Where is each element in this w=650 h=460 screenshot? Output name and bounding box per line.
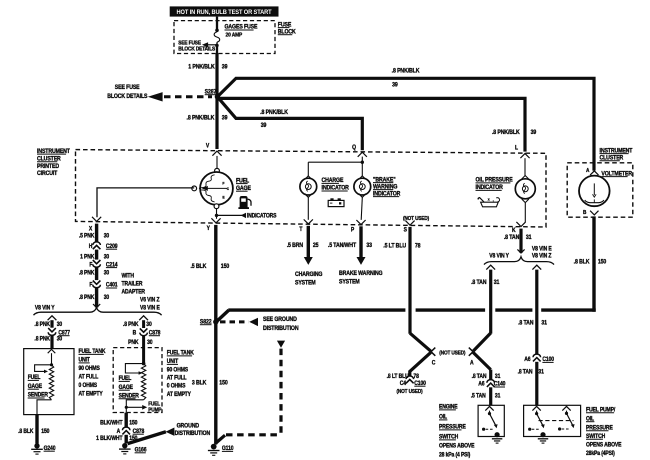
svg-text:S: S [404,227,408,233]
svg-text:A: A [586,168,590,174]
svg-text:ADAPTER: ADAPTER [122,289,146,295]
svg-text:150: 150 [221,264,229,270]
svg-text:.5 TAN: .5 TAN [471,393,486,399]
svg-text:A: A [117,429,121,435]
svg-text:SEE GROUND: SEE GROUND [263,317,297,323]
svg-text:30: 30 [147,339,152,345]
svg-text:.5 PNK: .5 PNK [79,233,95,239]
svg-text:90 OHMS: 90 OHMS [167,367,189,373]
svg-text:V8 VIN Y: V8 VIN Y [35,305,55,311]
svg-text:30: 30 [104,254,109,260]
svg-text:.5 TAN/WHT: .5 TAN/WHT [328,243,357,249]
svg-text:.8 PNK/BLK: .8 PNK/BLK [492,130,521,136]
svg-text:AT EMPTY: AT EMPTY [79,391,103,397]
svg-text:SYSTEM: SYSTEM [295,280,316,286]
svg-text:BLK/WHT: BLK/WHT [100,420,123,426]
svg-text:20 AMP: 20 AMP [226,32,243,38]
svg-text:39: 39 [531,130,537,136]
svg-text:K: K [512,227,516,233]
svg-text:A6: A6 [478,381,484,387]
svg-text:AT EMPTY: AT EMPTY [167,392,191,398]
svg-text:.5 BRN: .5 BRN [287,243,303,249]
svg-text:OPENS ABOVE: OPENS ABOVE [439,443,475,449]
svg-text:(NOT USED): (NOT USED) [439,350,465,356]
svg-text:V6 VIN Z: V6 VIN Z [140,297,160,303]
svg-text:31: 31 [538,369,543,375]
svg-text:,: , [493,198,494,202]
svg-text:28kPa (4PSI): 28kPa (4PSI) [586,451,615,457]
svg-text:.8 LT BLU: .8 LT BLU [387,374,409,380]
svg-text:BLOCK DETAILS: BLOCK DETAILS [107,94,147,100]
svg-text:B: B [133,330,137,336]
svg-text:C: C [432,360,436,366]
svg-text:33: 33 [366,243,372,249]
svg-text:PNK: PNK [128,339,138,345]
svg-text:CIRCUIT: CIRCUIT [37,171,58,177]
svg-text:TRAILER: TRAILER [122,281,143,287]
svg-text:.8 PNK: .8 PNK [79,295,95,301]
svg-text:OPENS ABOVE: OPENS ABOVE [586,442,622,448]
svg-text:150: 150 [219,380,227,386]
svg-text:AT FULL: AT FULL [79,374,99,380]
svg-text:DISTRIBUTION: DISTRIBUTION [175,431,210,437]
svg-text:.8 TAN: .8 TAN [471,280,486,286]
svg-text:.8 TAN: .8 TAN [504,235,519,241]
svg-text:.8 PNK/BLK: .8 PNK/BLK [260,110,289,116]
svg-text:0 OHMS: 0 OHMS [167,383,186,389]
svg-text:31: 31 [526,235,532,241]
svg-text:28 kPa (4 PSI): 28 kPa (4 PSI) [439,452,471,458]
svg-text:39: 39 [222,115,228,121]
svg-text:B: B [583,210,587,216]
svg-text:30: 30 [146,322,151,328]
svg-text:GROUND: GROUND [177,423,199,429]
svg-text:Y: Y [207,226,211,232]
svg-text:150: 150 [41,429,49,435]
svg-text:V8 VIN Y: V8 VIN Y [489,253,509,259]
svg-text:.8 PNK: .8 PNK [34,322,50,328]
svg-text:.8 PNK: .8 PNK [123,322,139,328]
svg-text:150: 150 [129,420,137,426]
svg-text:BRAKE WARNING: BRAKE WARNING [339,271,383,277]
svg-text:39: 39 [392,82,398,88]
svg-text:.8 PNK: .8 PNK [79,270,95,276]
svg-text:(NOT USED): (NOT USED) [403,215,429,221]
svg-text:.5 LT BLU: .5 LT BLU [383,243,406,249]
svg-text:P: P [351,227,355,233]
svg-text:X: X [89,226,93,232]
svg-text:V: V [206,143,210,149]
svg-text:BLOCK DETAILS: BLOCK DETAILS [178,46,215,52]
svg-text:31: 31 [495,374,500,380]
svg-text:.8 PNK/BLK: .8 PNK/BLK [187,115,216,121]
svg-text:SEE FUSE: SEE FUSE [115,85,140,91]
svg-text:.8 TAN: .8 TAN [518,369,533,375]
svg-text:25: 25 [313,243,319,249]
svg-text:.8 PNK: .8 PNK [34,336,50,342]
svg-text:C4: C4 [400,381,407,387]
svg-text:31: 31 [495,393,500,399]
svg-text:V8 VIN Z: V8 VIN Z [532,253,552,259]
svg-text:.5 BLK: .5 BLK [190,264,207,270]
svg-text:39: 39 [222,64,228,70]
svg-text:31: 31 [494,280,500,286]
svg-text:.8 TAN: .8 TAN [472,374,487,380]
svg-text:31: 31 [541,320,547,326]
svg-text:39: 39 [261,123,267,129]
svg-text:30: 30 [104,270,109,276]
svg-text:150: 150 [129,436,137,442]
svg-text:V8 VIN E: V8 VIN E [532,246,552,252]
svg-text:1 PNK/BLK: 1 PNK/BLK [188,64,215,70]
svg-text:DISTRIBUTION: DISTRIBUTION [263,326,298,332]
svg-text:1 PNK: 1 PNK [80,254,94,260]
svg-text:3 BLK: 3 BLK [192,380,207,386]
svg-text:SYSTEM: SYSTEM [339,279,360,285]
svg-text:90 OHMS: 90 OHMS [79,366,101,372]
svg-text:.8 BLK: .8 BLK [574,259,591,265]
svg-text:30: 30 [57,336,62,342]
svg-text:HOT IN RUN, BULB TEST OR START: HOT IN RUN, BULB TEST OR START [177,8,272,16]
svg-text:.8 TAN: .8 TAN [518,320,533,326]
svg-text:.8 PNK/BLK: .8 PNK/BLK [392,68,421,74]
svg-text:A: A [470,360,474,366]
svg-text:30: 30 [57,322,62,328]
svg-text:A6: A6 [524,357,530,363]
svg-text:PRINTED: PRINTED [37,164,59,170]
svg-text:78: 78 [415,243,421,249]
svg-text:150: 150 [598,259,606,265]
svg-text:PUMP: PUMP [148,407,162,413]
svg-text:CHARGING: CHARGING [295,272,323,278]
svg-text:(NOT USED): (NOT USED) [396,389,422,395]
svg-text:INDICATORS: INDICATORS [247,213,277,219]
svg-text:H: H [89,244,93,250]
svg-text:30: 30 [104,233,109,239]
svg-text:.8 BLK: .8 BLK [18,429,33,435]
svg-text:0 OHMS: 0 OHMS [79,383,98,389]
svg-text:AT FULL: AT FULL [167,375,187,381]
svg-text:V8 VIN E: V8 VIN E [140,305,160,311]
svg-text:1 BLK/WHT: 1 BLK/WHT [96,436,123,442]
svg-text:30: 30 [104,295,109,301]
svg-text:78: 78 [413,374,418,380]
svg-text:WITH: WITH [122,273,134,279]
